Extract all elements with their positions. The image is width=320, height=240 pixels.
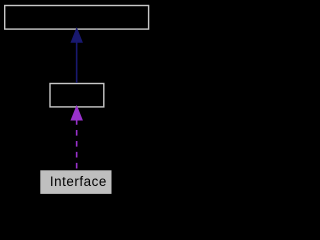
edge: dashed usage arrow (darkorchid) — [71, 106, 82, 170]
edge: solid inheritance arrow (midnightblue) — [71, 28, 82, 83]
node: derived class (middle, empty box) — [50, 84, 104, 107]
node: Interface (current, filled grey) — [40, 170, 111, 194]
svg-text:Interface: Interface — [50, 174, 107, 189]
node: base class (top, empty box) — [5, 6, 149, 30]
